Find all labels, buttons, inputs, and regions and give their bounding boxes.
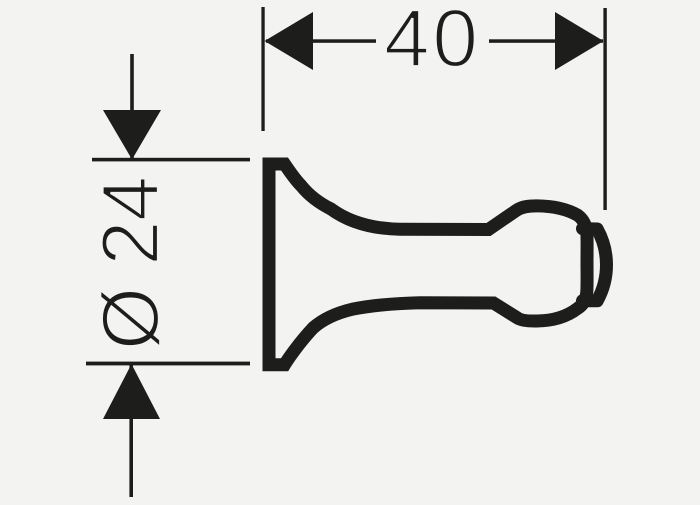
left dimension bottom arrowhead (points up): [103, 364, 160, 419]
wall hook body (side profile: base plate, trumpet stem, ball): [269, 164, 587, 365]
left dimension: bottom extension line: [86, 362, 250, 366]
left dimension line bottom segment: [129, 365, 133, 497]
top dimension left arrowhead: [265, 12, 314, 70]
top dimension right arrowhead: [555, 12, 604, 70]
left dimension line top segment: [130, 54, 134, 158]
top dimension line right segment: [489, 39, 603, 43]
top dimension line left segment: [266, 39, 376, 43]
left dimension: top extension line: [92, 158, 250, 162]
top dimension: left extension line: [261, 7, 264, 131]
svg-text:Ø 24: Ø 24: [86, 176, 176, 350]
left dimension top arrowhead (points down): [103, 110, 161, 160]
top dimension: right extension line: [603, 8, 606, 210]
hook tip end-cap arc: [583, 229, 607, 301]
